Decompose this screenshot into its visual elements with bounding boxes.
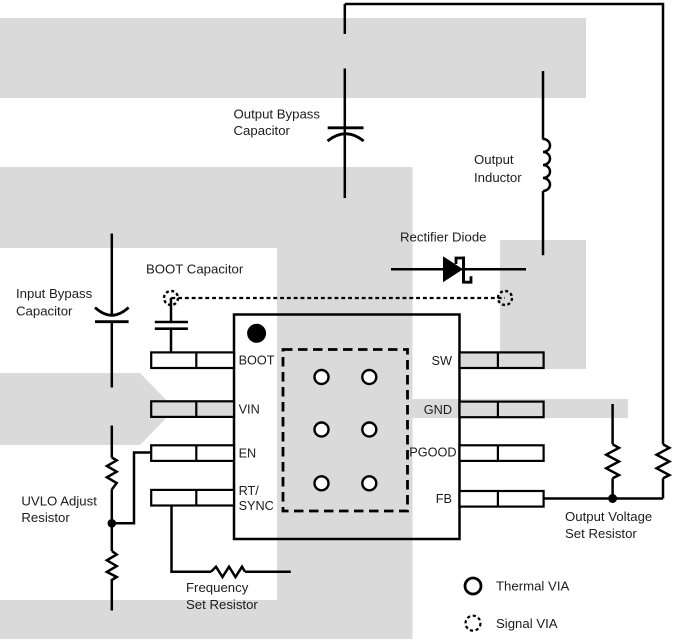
wire frequency resistor right lead [245,571,291,574]
svg-text:SW: SW [432,354,452,368]
svg-text:Input Bypass: Input Bypass [16,286,93,301]
capacitor input bypass [95,234,129,388]
copper pour: SW block right [500,240,586,369]
wire FB to divider [544,497,663,500]
wire output cap lead [344,69,347,199]
svg-text:Output Voltage: Output Voltage [565,509,652,524]
pad VIN pin (copper) [151,401,234,417]
pad RT/SYNC pin [151,490,234,506]
wire VOUT top trace [345,4,663,444]
svg-text:RT/: RT/ [239,484,260,498]
pin 1 marker dot [247,324,266,343]
pad PGOOD pin [460,445,544,461]
wire EN connection [112,453,152,524]
pad BOOT pin [151,352,234,368]
resistor frequency set [211,567,245,577]
capacitor output bypass [328,128,364,141]
inductor L1 output inductor [543,71,550,255]
svg-text:EN: EN [239,447,257,461]
thermal via 4 [362,423,376,437]
IC body U1 [234,315,460,540]
thermal via 2 [362,370,376,384]
svg-text:GND: GND [424,403,452,417]
diode D1 rectifier (schottky) [391,256,526,283]
resistor UVLO upper [107,458,117,490]
signal via left [164,291,178,305]
svg-text:FB: FB [436,492,452,506]
legend thermal via symbol [465,578,481,594]
copper pour: central GND column [277,167,413,639]
legend signal via symbol [466,616,481,631]
wire dashed signal trace [171,297,505,299]
pad FB pin [460,491,544,507]
svg-text:Output Bypass: Output Bypass [234,107,321,122]
node FB junction [608,494,617,503]
svg-text:PGOOD: PGOOD [409,446,456,460]
svg-text:Set Resistor: Set Resistor [186,597,258,612]
svg-text:Resistor: Resistor [21,510,70,525]
resistor UVLO lower [107,551,117,580]
svg-text:Output: Output [474,152,514,167]
copper pour: bottom band [0,600,413,639]
svg-text:Inductor: Inductor [474,170,522,185]
signal via right [498,291,512,305]
thermal pad dashed outline [283,350,408,512]
svg-text:Set Resistor: Set Resistor [565,526,637,541]
copper pour: GND strip right [413,399,629,418]
thermal via 5 [315,476,329,490]
wire to junction [111,490,114,552]
svg-text:BOOT Capacitor: BOOT Capacitor [146,262,244,277]
resistor divider upper (in VOUT wire) [657,444,670,498]
thermal via 1 [315,370,329,384]
svg-text:VIN: VIN [239,402,260,416]
node junction EN divider [108,519,117,528]
svg-text:UVLO Adjust: UVLO Adjust [21,494,97,509]
thermal via 6 [362,476,376,490]
svg-text:Signal VIA: Signal VIA [496,616,558,631]
pad EN pin [151,445,234,461]
copper pour: VIN arrow [0,373,175,445]
wire RT/SYNC to frequency resistor [172,505,212,572]
pad GND pin (copper) [460,402,544,418]
svg-text:SYNC: SYNC [239,499,274,513]
thermal via 3 [315,423,329,437]
wire to ground pour [111,579,114,611]
wire output cap upper lead segment [344,4,347,34]
svg-text:Rectifier Diode: Rectifier Diode [400,230,487,245]
pad SW pin (copper) [460,352,544,368]
svg-text:Capacitor: Capacitor [234,123,291,138]
capacitor BOOT [155,298,188,353]
copper pour: second band (VIN/GND upper-left) [0,167,413,248]
svg-text:Frequency: Frequency [186,580,249,595]
svg-text:Thermal VIA: Thermal VIA [496,579,569,594]
wire VIN lead lower segment [111,426,114,458]
svg-text:Capacitor: Capacitor [16,304,73,319]
copper pour: top VOUT band [0,18,586,98]
svg-text:BOOT: BOOT [239,354,275,368]
resistor output voltage set (upper leg to GND strip) [606,404,619,499]
